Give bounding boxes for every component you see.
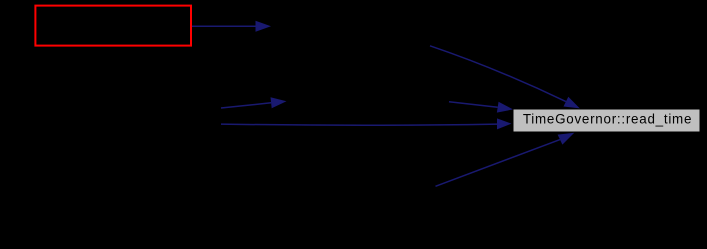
wire: long horizontal edge to TimeGovernor::read_time left edge xyxy=(221,118,512,129)
wire: edge from hidden bottom node to TimeGovernor::read_time bottom xyxy=(436,133,575,187)
svg-text:TimeGovernor::read_time: TimeGovernor::read_time xyxy=(523,111,692,126)
node: TimeGovernor::read_time (current function, grey) xyxy=(513,109,700,132)
node: red truncated caller box xyxy=(35,6,191,46)
wire: edge hidden node A to TimeGovernor::read_time top xyxy=(430,46,580,109)
wire: edge hidden node B to TimeGovernor::read_time left top corner xyxy=(449,102,513,113)
wire: edge to hidden node B xyxy=(221,97,287,108)
wire: edge red box to hidden node A xyxy=(192,21,271,32)
